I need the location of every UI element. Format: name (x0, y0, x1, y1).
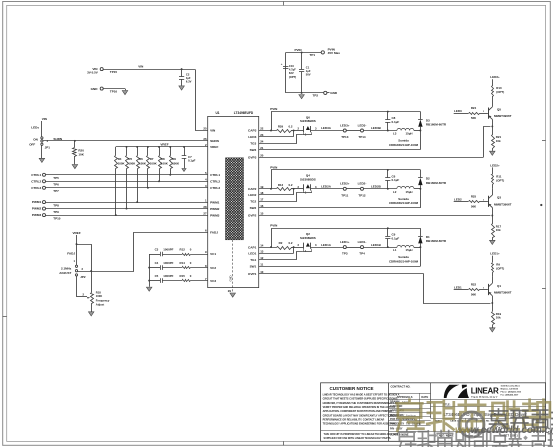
svg-text:RB160M-60TR: RB160M-60TR (426, 181, 447, 185)
svg-text:11: 11 (260, 262, 263, 266)
svg-text:PWM2: PWM2 (210, 207, 220, 211)
svg-text:15µH: 15µH (406, 190, 413, 194)
svg-text:0.1µF: 0.1µF (392, 236, 400, 240)
svg-text:VREF: VREF (210, 145, 218, 149)
svg-text:LED1+: LED1+ (490, 252, 500, 256)
svg-text:CTRL3: CTRL3 (210, 186, 220, 190)
svg-text:17: 17 (260, 198, 264, 202)
svg-text:TP14: TP14 (358, 135, 366, 139)
svg-text:LED1B: LED1B (371, 243, 382, 247)
svg-text:PWM1: PWM1 (210, 200, 220, 204)
svg-text:RB160M-60TR: RB160M-60TR (426, 123, 447, 127)
svg-text:Q1: Q1 (497, 284, 501, 288)
svg-text:CDRH6D214HP-100M: CDRH6D214HP-100M (389, 201, 419, 205)
svg-text:Q5: Q5 (497, 108, 501, 112)
svg-text:10k: 10k (496, 139, 501, 143)
svg-text:PVIN: PVIN (270, 165, 277, 169)
svg-text:20: 20 (260, 153, 264, 157)
svg-text:LED3: LED3 (454, 109, 462, 113)
svg-text:Si2308BDS: Si2308BDS (300, 119, 316, 123)
svg-text:APPLICATION. COMPONENT SUBSTI: APPLICATION. COMPONENT SUBSTITUTION AND … (323, 410, 393, 413)
svg-text:TP7: TP7 (53, 189, 59, 193)
svg-text:L3: L3 (393, 132, 397, 136)
svg-text:100K: 100K (150, 162, 158, 166)
svg-text:PWB - ASSY: PWB - ASSY (390, 422, 405, 425)
svg-text:LED1+: LED1+ (340, 240, 350, 244)
svg-text:C4: C4 (155, 261, 159, 265)
svg-text:TP9: TP9 (53, 210, 59, 214)
svg-text:THIS CIRCUIT IS PROPRIETARY TO: THIS CIRCUIT IS PROPRIETARY TO LINEAR TE… (324, 433, 399, 436)
svg-text:(OPT): (OPT) (289, 75, 296, 79)
svg-text:LED2: LED2 (248, 193, 256, 197)
svg-text:MMBT3906T: MMBT3906T (494, 291, 512, 295)
svg-text:VIN: VIN (42, 117, 48, 121)
svg-text:OVP3: OVP3 (248, 155, 257, 159)
svg-text:TP2: TP2 (313, 94, 319, 98)
svg-text:LT3496EUFD: LT3496EUFD (234, 111, 254, 115)
svg-text:LED2+: LED2+ (490, 163, 500, 167)
svg-text:JP1: JP1 (45, 146, 51, 150)
svg-text:0.2: 0.2 (288, 241, 292, 245)
svg-text:R15: R15 (180, 274, 186, 278)
svg-text:LED1: LED1 (248, 251, 256, 255)
svg-text:R29: R29 (278, 125, 284, 129)
svg-text:R5: R5 (128, 157, 132, 161)
svg-text:VIN: VIN (138, 65, 143, 69)
svg-text:Adjust: Adjust (96, 303, 104, 307)
svg-text:1000PF: 1000PF (163, 274, 173, 278)
svg-text:56K: 56K (471, 204, 477, 208)
svg-text:1000PF: 1000PF (163, 248, 173, 252)
svg-text:DATE: DATE (421, 395, 428, 399)
svg-text:0.1µF: 0.1µF (392, 120, 400, 124)
svg-text:RB160M-60TR: RB160M-60TR (426, 239, 447, 243)
svg-text:13: 13 (260, 249, 264, 253)
svg-text:TP10: TP10 (53, 217, 61, 221)
svg-text:15µH: 15µH (406, 132, 413, 136)
svg-text:PVIN: PVIN (270, 224, 277, 228)
svg-text:CHECKED: CHECKED (390, 405, 403, 408)
svg-text:PWM1: PWM1 (32, 200, 42, 204)
svg-text:APPROVALS: APPROVALS (397, 395, 413, 399)
svg-text:PWM3: PWM3 (210, 213, 220, 217)
svg-text:R14: R14 (180, 261, 186, 265)
svg-text:TP12: TP12 (358, 193, 366, 197)
svg-text:SW2: SW2 (250, 206, 257, 210)
svg-text:GND: GND (228, 275, 232, 281)
svg-text:R7: R7 (150, 157, 154, 161)
svg-text:56K: 56K (471, 116, 477, 120)
svg-text:(OPT): (OPT) (496, 178, 504, 182)
svg-text:TG1: TG1 (250, 258, 256, 262)
svg-text:1µF: 1µF (306, 69, 311, 73)
svg-text:TG3: TG3 (250, 141, 256, 145)
svg-text:0.2: 0.2 (288, 183, 292, 187)
svg-text:TP13: TP13 (341, 135, 349, 139)
svg-text:TP5: TP5 (53, 176, 59, 180)
svg-text:VERIFY PROPER AND RELIABLE OPE: VERIFY PROPER AND RELIABLE OPERATION IN … (323, 406, 396, 409)
svg-text:100K: 100K (172, 162, 180, 166)
svg-text:PVIN: PVIN (294, 48, 301, 52)
svg-text:100K: 100K (139, 162, 147, 166)
svg-text:TG2: TG2 (250, 200, 256, 204)
svg-text:www.eeworld.com.cn: www.eeworld.com.cn (455, 425, 553, 436)
svg-text:CUSTOMER NOTICE: CUSTOMER NOTICE (330, 386, 374, 391)
svg-text:TP3: TP3 (342, 252, 348, 256)
svg-text:MMBT3906T: MMBT3906T (494, 114, 512, 118)
svg-text:CTRL3: CTRL3 (31, 186, 41, 190)
svg-text:OVP1: OVP1 (248, 272, 257, 276)
svg-text:GND: GND (91, 87, 99, 91)
svg-text:CAP1: CAP1 (248, 245, 257, 249)
svg-text:Fax: (408)434-0507: Fax: (408)434-0507 (501, 394, 520, 397)
svg-text:CTRL2: CTRL2 (210, 180, 220, 184)
svg-text:LED2A: LED2A (321, 185, 332, 189)
svg-text:LED3+: LED3+ (340, 123, 350, 127)
svg-text:TP8: TP8 (53, 204, 59, 208)
svg-text:29: 29 (228, 289, 232, 293)
svg-text:JP2: JP2 (80, 275, 86, 279)
svg-text:CAP2: CAP2 (248, 187, 257, 191)
svg-text:PVIN: PVIN (270, 107, 277, 111)
svg-text:PERFORMANCE OR RELIABILITY. C: PERFORMANCE OR RELIABILITY. CONTACT LINE… (323, 419, 385, 422)
svg-text:ON: ON (33, 138, 38, 142)
svg-text:LED3B: LED3B (371, 126, 382, 130)
svg-text:L2: L2 (393, 190, 397, 194)
svg-text:LED2-: LED2- (358, 182, 367, 186)
svg-text:R9: R9 (172, 157, 176, 161)
svg-text:HOWEVER, IT REMAINS THE CUSTOM: HOWEVER, IT REMAINS THE CUSTOMER'S RESPO… (323, 402, 398, 405)
svg-text:SHDN: SHDN (210, 139, 220, 143)
svg-text:TP1: TP1 (310, 53, 316, 57)
svg-text:0.1µF: 0.1µF (392, 178, 400, 182)
svg-text:10K: 10K (78, 152, 84, 156)
svg-text:R8: R8 (161, 157, 165, 161)
svg-text:LED2: LED2 (454, 197, 462, 201)
svg-text:0.2: 0.2 (288, 125, 292, 129)
svg-text:100K: 100K (161, 162, 169, 166)
svg-text:LED3-: LED3- (358, 123, 367, 127)
svg-text:LINEAR TECHNOLOGY HAS MADE A B: LINEAR TECHNOLOGY HAS MADE A BEST EFFORT… (323, 393, 400, 396)
svg-text:R24: R24 (471, 106, 477, 110)
svg-text:MMBT3906T: MMBT3906T (494, 202, 512, 206)
svg-text:14: 14 (260, 243, 264, 247)
svg-text:CAP3: CAP3 (248, 129, 257, 133)
svg-text:SW1: SW1 (250, 264, 257, 268)
svg-text:FADJ: FADJ (67, 252, 75, 256)
svg-text:(OPT): (OPT) (496, 267, 504, 271)
svg-text:CTRL1: CTRL1 (210, 173, 220, 177)
svg-text:R4: R4 (118, 157, 122, 161)
svg-text:100K: 100K (118, 162, 126, 166)
svg-text:Si2308BDS: Si2308BDS (300, 178, 316, 182)
svg-text:LED2B: LED2B (371, 185, 382, 189)
svg-text:TECHNOLOGY APPLICATIONS ENGINE: TECHNOLOGY APPLICATIONS ENGINEERING FOR … (323, 423, 399, 426)
svg-text:2.1MHz: 2.1MHz (61, 267, 72, 271)
svg-text:4.7µF: 4.7µF (289, 68, 296, 72)
svg-text:C3: C3 (155, 248, 159, 252)
svg-text:R13: R13 (278, 183, 284, 187)
svg-text:Frequency: Frequency (96, 299, 110, 303)
svg-text:R18: R18 (96, 291, 101, 295)
svg-text:TP11: TP11 (341, 193, 348, 197)
svg-text:LED1: LED1 (454, 286, 462, 290)
svg-text:Si2308BDS: Si2308BDS (300, 236, 316, 240)
svg-text:CDRH6D214HP-100M: CDRH6D214HP-100M (389, 143, 419, 147)
svg-text:0.1µF: 0.1µF (188, 159, 196, 163)
svg-text:45V Max: 45V Max (328, 51, 341, 55)
svg-text:CIRCUIT BOARD LAYOUT MAY SIGNI: CIRCUIT BOARD LAYOUT MAY SIGNIFICANTLY A… (323, 414, 399, 417)
svg-text:TECHNOLOGY: TECHNOLOGY (471, 395, 498, 399)
svg-text:3V-5.5V: 3V-5.5V (87, 71, 98, 75)
svg-text:LINEAR: LINEAR (471, 386, 499, 395)
svg-text:R22: R22 (471, 283, 477, 287)
svg-text:1µF: 1µF (186, 76, 191, 80)
svg-text:LED2+: LED2+ (340, 182, 350, 186)
svg-text:VREF: VREF (72, 231, 80, 235)
svg-text:C5: C5 (155, 274, 159, 278)
svg-text:CTRL2: CTRL2 (31, 179, 41, 183)
svg-text:PWM2: PWM2 (32, 207, 42, 211)
svg-text:R12: R12 (180, 248, 186, 252)
svg-text:R25: R25 (471, 194, 477, 198)
svg-text:+: + (281, 62, 283, 66)
svg-text:LED3+: LED3+ (490, 75, 500, 79)
svg-text:56K: 56K (471, 293, 477, 297)
svg-text:Q3: Q3 (497, 196, 501, 200)
svg-text:25: 25 (203, 127, 207, 131)
svg-text:TP16: TP16 (110, 89, 118, 93)
svg-text:100K: 100K (96, 294, 102, 298)
svg-text:TP6: TP6 (53, 183, 59, 187)
svg-text:L1: L1 (393, 248, 397, 252)
svg-text:R2: R2 (279, 241, 283, 245)
svg-text:VC2: VC2 (210, 266, 216, 270)
svg-text:SW3: SW3 (250, 148, 257, 152)
svg-text:ADJUST: ADJUST (59, 271, 71, 275)
svg-text:LEDs: LEDs (31, 126, 39, 130)
svg-text:CIRCUIT THAT MEETS CUSTOMER-SU: CIRCUIT THAT MEETS CUSTOMER-SUPPLIED SPE… (323, 398, 398, 401)
svg-text:C10: C10 (289, 64, 294, 68)
svg-text:63V: 63V (289, 71, 294, 75)
svg-text:6.3V: 6.3V (186, 80, 192, 84)
svg-text:OFF: OFF (29, 142, 35, 146)
svg-text:LED3: LED3 (248, 135, 256, 139)
svg-text:LED1A: LED1A (321, 243, 332, 247)
svg-text:50V: 50V (306, 73, 311, 77)
svg-text:OVP2: OVP2 (248, 214, 257, 218)
svg-text:U1: U1 (215, 111, 219, 115)
svg-text:24: 24 (260, 139, 264, 143)
svg-text:CDRH6D214HP-100M: CDRH6D214HP-100M (389, 260, 419, 264)
svg-text:1000PF: 1000PF (163, 261, 173, 265)
svg-text:PWM3: PWM3 (32, 213, 42, 217)
svg-text:TP4: TP4 (359, 252, 365, 256)
svg-text:Milpitas, CA 95035: Milpitas, CA 95035 (501, 387, 519, 390)
svg-text:VREF: VREF (160, 143, 168, 147)
svg-text:LED3A: LED3A (321, 126, 332, 130)
svg-text:FADJ: FADJ (210, 231, 218, 235)
svg-text:CONTRACT NO.: CONTRACT NO. (391, 385, 411, 389)
svg-text:GND: GND (330, 91, 338, 95)
svg-text:27: 27 (203, 211, 207, 215)
svg-text:CTRL1: CTRL1 (31, 173, 41, 177)
svg-text:VC1: VC1 (210, 252, 216, 256)
svg-text:10k: 10k (496, 316, 501, 320)
svg-text:(OPT): (OPT) (496, 90, 504, 94)
svg-text:C1: C1 (306, 66, 310, 70)
svg-text:SUPPLIED FOR USE WITH LINEAR T: SUPPLIED FOR USE WITH LINEAR TECHNOLOGY … (324, 437, 392, 440)
svg-text:LED1-: LED1- (358, 240, 367, 244)
svg-text:C2: C2 (186, 73, 190, 77)
svg-text:10k: 10k (496, 228, 501, 232)
svg-text:VC3: VC3 (210, 279, 216, 283)
svg-text:TP15: TP15 (110, 70, 118, 74)
svg-text:1630 McCarthy Blvd.: 1630 McCarthy Blvd. (501, 384, 521, 387)
svg-text:15µH: 15µH (406, 248, 413, 252)
svg-text:100K: 100K (128, 162, 136, 166)
svg-text:VIN: VIN (210, 129, 216, 133)
svg-text:R6: R6 (139, 157, 143, 161)
svg-text:Phone: (408)432-1900: Phone: (408)432-1900 (501, 391, 522, 394)
